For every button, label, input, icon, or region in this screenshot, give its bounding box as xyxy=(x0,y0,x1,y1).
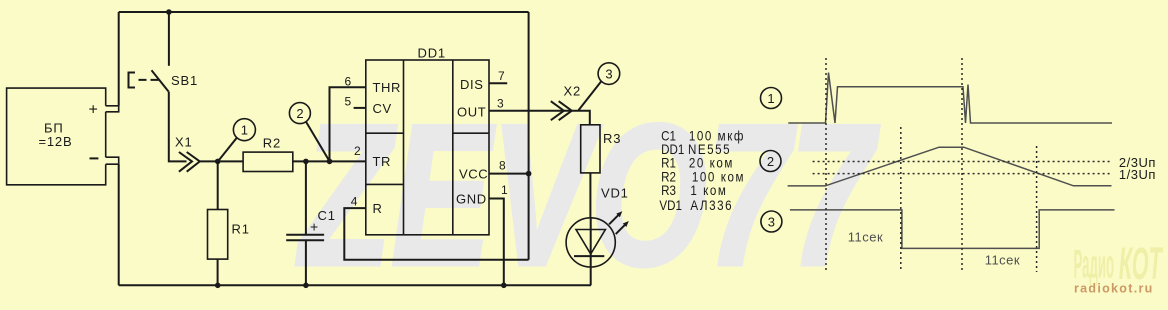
wire DIS stub pin 7 xyxy=(489,82,507,84)
junction dot X1/R1/R2 xyxy=(215,159,221,165)
junction dot R1/bottom rail xyxy=(215,283,221,289)
BP minus terminal tab xyxy=(106,157,119,164)
svg-text:DD1: DD1 xyxy=(418,46,446,61)
wire OUT pin 3 xyxy=(489,111,590,125)
svg-text:3: 3 xyxy=(605,66,612,81)
svg-text:R120 ком: R120 ком xyxy=(661,156,734,171)
dotted vertical t1 xyxy=(825,58,827,272)
svg-text:+: + xyxy=(310,219,318,235)
resistor R1 xyxy=(208,161,250,285)
junction dot VCC xyxy=(526,171,532,177)
waveform 2 trace xyxy=(788,147,1112,186)
svg-text:11сек: 11сек xyxy=(985,253,1020,268)
node 1 circle (waveform) xyxy=(761,88,782,109)
dotted vertical t4 xyxy=(1036,146,1038,272)
svg-text:R2: R2 xyxy=(263,136,281,151)
svg-text:VCC: VCC xyxy=(459,167,488,182)
BP plus terminal tab xyxy=(106,106,119,112)
waveform 1 trace xyxy=(788,73,1112,123)
power supply BP box xyxy=(7,88,106,185)
junction dot on top rail xyxy=(166,9,172,15)
svg-text:4: 4 xyxy=(351,195,358,209)
junction dot THR branch xyxy=(327,159,333,165)
wire: left vertical from top rail to plus tab xyxy=(118,12,120,106)
svg-text:1/3Uп: 1/3Uп xyxy=(1119,167,1156,182)
svg-text:X1: X1 xyxy=(175,135,193,150)
wire right vertical VCC rail xyxy=(528,12,530,260)
svg-text:7: 7 xyxy=(498,69,505,83)
svg-text:Радио: Радио xyxy=(1074,243,1115,287)
svg-text:5: 5 xyxy=(345,94,352,108)
svg-text:R31 ком: R31 ком xyxy=(661,183,727,198)
svg-text:R1: R1 xyxy=(232,222,250,237)
svg-text:1: 1 xyxy=(241,123,248,138)
wire VCC pin 8 xyxy=(489,173,529,175)
svg-text:2: 2 xyxy=(354,144,361,158)
junction dot C1/bottom rail xyxy=(303,283,309,289)
svg-text:DIS: DIS xyxy=(460,77,483,92)
svg-text:3: 3 xyxy=(497,97,504,111)
LED VD1 xyxy=(566,186,629,286)
svg-text:R2100 ком: R2100 ком xyxy=(661,170,745,185)
svg-text:C1: C1 xyxy=(318,208,336,223)
svg-text:11сек: 11сек xyxy=(848,230,883,245)
svg-text:+: + xyxy=(89,102,98,119)
svg-text:OUT: OUT xyxy=(457,105,486,120)
node 2 circle (waveform) xyxy=(760,151,781,172)
svg-text:VD1: VD1 xyxy=(601,186,629,201)
svg-text:THR: THR xyxy=(373,80,402,95)
junction dot R2/C1 xyxy=(303,159,309,165)
svg-text:GND: GND xyxy=(456,192,487,207)
resistor R2 xyxy=(243,136,366,172)
wire reset pin 4 return xyxy=(344,208,528,260)
resistor R3 xyxy=(581,125,622,218)
svg-text:1: 1 xyxy=(767,91,774,106)
wire: left vertical from minus tab to bottom rail xyxy=(118,164,120,285)
waveform 3 trace xyxy=(790,210,1115,249)
svg-text:ZEVO77: ZEVO77 xyxy=(296,84,880,305)
svg-text:2: 2 xyxy=(767,154,774,169)
svg-text:R3: R3 xyxy=(603,131,621,146)
wire: top rail xyxy=(119,11,529,13)
svg-text:=12В: =12В xyxy=(39,134,73,149)
connector X2 xyxy=(551,84,581,121)
node 2 circle xyxy=(289,103,329,161)
svg-text:3: 3 xyxy=(768,214,775,229)
switch SB1 xyxy=(129,12,198,161)
wire GND pin 1 to bottom rail xyxy=(489,199,504,286)
wire: bottom rail xyxy=(119,284,591,286)
capacitor C1 xyxy=(286,161,336,285)
svg-text:2: 2 xyxy=(296,106,303,121)
component list xyxy=(659,129,745,214)
svg-text:6: 6 xyxy=(345,75,352,89)
node 3 circle (waveform) xyxy=(761,211,782,232)
svg-text:X2: X2 xyxy=(564,84,582,99)
BP minus terminal label xyxy=(90,157,99,159)
svg-text:CV: CV xyxy=(373,101,392,116)
svg-text:8: 8 xyxy=(499,159,506,173)
connector X1 xyxy=(175,135,243,172)
svg-text:1: 1 xyxy=(501,183,508,197)
junction dot GND/bottom rail xyxy=(501,283,507,289)
wire CV stub pin 5 xyxy=(354,107,366,109)
dotted vertical t3 xyxy=(961,58,963,272)
node 3 circle xyxy=(578,63,619,111)
dotted vertical t2 xyxy=(900,127,902,272)
svg-text:TR: TR xyxy=(373,154,392,169)
svg-text:VD1АЛ336: VD1АЛ336 xyxy=(659,198,733,213)
svg-text:R: R xyxy=(373,201,383,216)
op-amp timer DD1 box xyxy=(366,46,489,235)
dotted level 2/3U xyxy=(813,161,1112,163)
svg-text:SB1: SB1 xyxy=(171,73,198,88)
svg-text:radiokot.ru: radiokot.ru xyxy=(1074,282,1154,296)
node 1 circle xyxy=(218,119,255,161)
wire THR branch xyxy=(330,87,366,161)
dotted level 1/3U xyxy=(813,173,1112,175)
